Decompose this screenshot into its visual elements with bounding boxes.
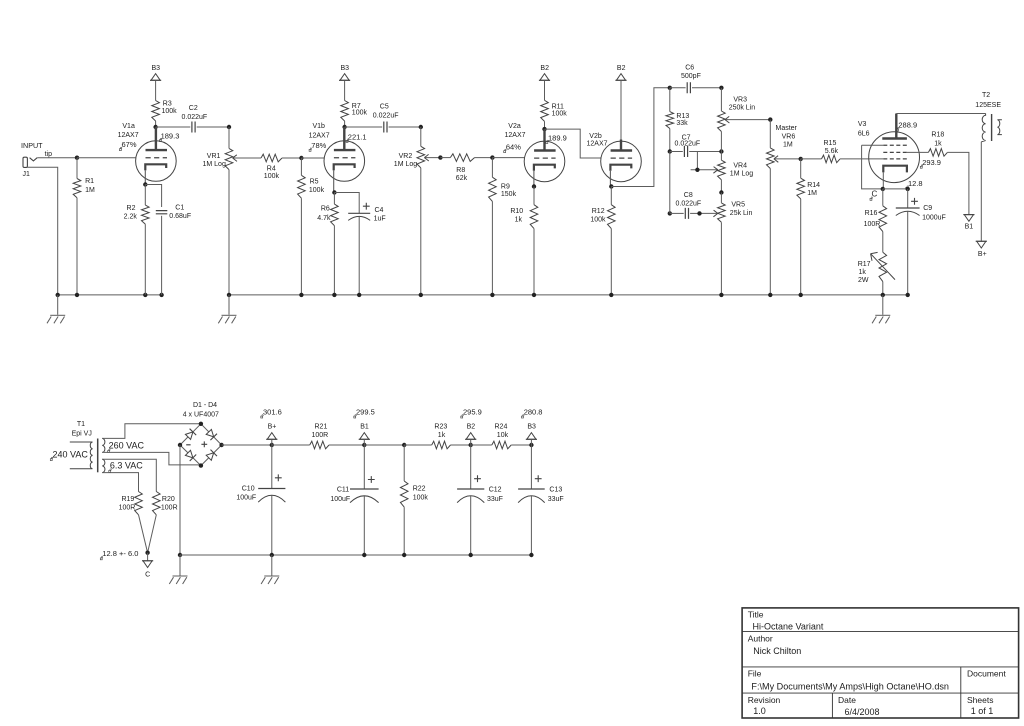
resistor R24	[492, 441, 511, 449]
diode D4	[206, 453, 214, 461]
svg-text:6/4/2008: 6/4/2008	[845, 707, 880, 717]
node V2a plate	[542, 127, 546, 131]
svg-text:R2: R2	[127, 205, 136, 212]
wire VR4 bottom	[720, 180, 722, 193]
node bridge bottom	[199, 463, 203, 467]
wire to C7	[670, 151, 683, 153]
node C2 out	[227, 125, 231, 129]
wire bridge minus to rail	[179, 445, 181, 555]
node bridge left	[178, 443, 182, 447]
svg-text:tip: tip	[45, 151, 53, 158]
svg-text:260 VAC: 260 VAC	[109, 441, 145, 451]
svg-text:R19: R19	[121, 496, 134, 503]
svg-text:293.9: 293.9	[922, 158, 941, 167]
wire cathode V2a to R10	[533, 187, 535, 205]
wire C5 to VR2 node	[389, 126, 421, 128]
node V2b cathode	[609, 184, 613, 188]
svg-text:288.9: 288.9	[898, 120, 917, 129]
wire B3 to R3	[155, 80, 157, 100]
wire VR4 top	[720, 152, 722, 161]
capacitor C9 (polarized)	[896, 207, 920, 209]
B3 supply arrow (V1a)	[151, 74, 160, 81]
wire R7 to plate node	[344, 121, 346, 127]
wire plate to C2	[156, 126, 191, 128]
node B1 psu	[362, 443, 366, 447]
wire wiper to R15	[801, 158, 822, 160]
wire R1 bottom	[76, 198, 78, 295]
wire wiper to R8	[440, 157, 450, 159]
wire B1 arrow stem	[363, 439, 365, 445]
wire HT bottom lead	[102, 452, 201, 465]
junction rail R12	[609, 293, 613, 297]
node V1a cathode	[143, 182, 147, 186]
svg-text:Title: Title	[748, 609, 764, 619]
node tone stack top left	[668, 86, 672, 90]
svg-text:Epi VJ: Epi VJ	[72, 430, 92, 437]
svg-text:1.0: 1.0	[753, 706, 766, 716]
wire R12 to rail	[610, 229, 612, 295]
wire B2 node to R24	[471, 444, 492, 446]
resistor R15	[822, 155, 841, 163]
junction rail VR6	[768, 293, 772, 297]
capacitor C10 (polarized)	[258, 488, 285, 490]
node C9 top	[906, 187, 910, 191]
svg-text:C13: C13	[549, 487, 562, 494]
wire R1 top	[76, 158, 78, 179]
svg-text:R21: R21	[315, 424, 328, 431]
triode V1b	[324, 141, 365, 182]
junction rail R5	[299, 293, 303, 297]
svg-text:T1: T1	[77, 421, 85, 428]
wire R9 bottom	[491, 201, 493, 295]
wire C10 top	[271, 445, 273, 489]
capacitor C2	[192, 122, 195, 133]
wire B2 to R11	[544, 80, 546, 100]
node C7 left	[668, 149, 672, 153]
wire C7 node down to C8	[669, 152, 671, 214]
svg-text:12AX7: 12AX7	[587, 141, 608, 148]
svg-text:C8: C8	[684, 192, 693, 199]
resistor R9	[489, 177, 497, 201]
svg-text:1 of 1: 1 of 1	[971, 706, 994, 716]
svg-text:62k: 62k	[456, 175, 468, 182]
svg-text:C11: C11	[337, 487, 349, 494]
svg-text:C1: C1	[175, 205, 184, 212]
node R22 top	[402, 443, 406, 447]
wire C8 to VR5 wiper	[690, 212, 699, 214]
svg-text:189.3: 189.3	[161, 131, 180, 140]
capacitor C5	[384, 122, 387, 133]
svg-text:100k: 100k	[162, 108, 178, 115]
wire VR2 bottom	[420, 168, 422, 295]
capacitor C8	[685, 208, 688, 219]
wire R21 to B1 node	[329, 444, 364, 446]
svg-text:100R: 100R	[312, 432, 329, 439]
svg-text:R4: R4	[267, 166, 276, 173]
wire VR1 bottom	[228, 170, 230, 295]
wire R24 to B3 node	[511, 444, 531, 446]
svg-text:1M Log: 1M Log	[394, 161, 417, 168]
wire grid V1b	[301, 157, 324, 159]
resistor R2	[142, 205, 150, 224]
svg-text:100R: 100R	[119, 505, 136, 512]
bridge edge top-right	[201, 424, 222, 445]
svg-text:V2a: V2a	[508, 123, 521, 130]
junction rail R2	[143, 293, 147, 297]
svg-text:1M Log: 1M Log	[730, 171, 753, 178]
wire R10 to rail	[533, 229, 535, 295]
wire R13 top	[669, 88, 671, 112]
wire C6 to VR3	[692, 87, 721, 89]
svg-text:C5: C5	[380, 103, 389, 110]
node VR2 wiper	[438, 155, 442, 159]
wire C9 to rail	[907, 211, 909, 295]
wire B2 arrow stem	[470, 439, 472, 445]
wire R22 top	[403, 445, 405, 481]
svg-text:1M Log: 1M Log	[203, 161, 226, 168]
svg-text:Date: Date	[838, 695, 856, 705]
svg-text:0.68uF: 0.68uF	[169, 213, 191, 220]
diode D3	[185, 450, 193, 458]
wire C12 top	[470, 445, 472, 489]
wire C2 to VR1 node	[197, 126, 229, 128]
wire screen to R18	[907, 151, 929, 153]
svg-text:100R: 100R	[864, 221, 881, 228]
bridge edge bottom-right	[201, 445, 222, 466]
svg-text:1M: 1M	[807, 190, 817, 197]
svg-text:12.8 +- 6.0: 12.8 +- 6.0	[102, 549, 138, 558]
svg-text:R14: R14	[807, 182, 820, 189]
svg-text:4 x UF4007: 4 x UF4007	[183, 411, 219, 418]
potentiometer VR1	[225, 148, 233, 169]
svg-text:67%: 67%	[122, 140, 137, 149]
svg-text:10k: 10k	[497, 432, 509, 439]
resistor R21	[310, 441, 329, 449]
capacitor C13 (polarized)	[518, 488, 545, 490]
wire cathode to C9	[883, 188, 908, 190]
transformer T2	[981, 114, 985, 142]
svg-text:VR2: VR2	[399, 153, 413, 160]
svg-text:301.6: 301.6	[263, 408, 282, 417]
svg-text:4.7k: 4.7k	[317, 215, 331, 222]
svg-text:B+: B+	[268, 423, 277, 430]
svg-text:D1 - D4: D1 - D4	[193, 402, 217, 409]
B+ supply arrow (output)	[977, 241, 986, 248]
psu ground rail	[180, 554, 531, 556]
wire 6.3 bottom lead	[102, 473, 138, 492]
node C7 right	[719, 149, 723, 153]
wire VR3 bottom	[720, 132, 722, 152]
wire cathode V1b to C4	[334, 193, 359, 214]
svg-text:R8: R8	[456, 167, 465, 174]
wire to C8	[670, 212, 684, 214]
svg-text:C2: C2	[189, 105, 198, 112]
wire to C6	[670, 87, 686, 89]
svg-text:Nick Chilton: Nick Chilton	[753, 646, 801, 656]
svg-text:R20: R20	[162, 496, 175, 503]
wire cathode V1b to R6	[333, 193, 335, 205]
svg-text:100k: 100k	[264, 173, 280, 180]
svg-text:1k: 1k	[438, 432, 446, 439]
node B2 psu	[469, 443, 473, 447]
potentiometer VR4	[718, 160, 726, 180]
resistor R3	[152, 101, 160, 122]
svg-text:R23: R23	[434, 424, 447, 431]
wire C point to arrow	[147, 553, 149, 561]
svg-text:100k: 100k	[552, 111, 568, 118]
svg-text:280.8: 280.8	[524, 408, 543, 417]
wire R20 to C point	[148, 515, 157, 553]
svg-text:100k: 100k	[590, 217, 606, 224]
svg-text:R1: R1	[85, 178, 94, 185]
junction psu rail C13	[529, 553, 533, 557]
svg-text:1uF: 1uF	[374, 216, 386, 223]
capacitor C1	[156, 211, 168, 214]
B2 supply arrow (V2a)	[540, 74, 549, 81]
net terminal C (heater)	[143, 561, 152, 568]
wire C4 to rail	[358, 216, 360, 295]
svg-text:299.5: 299.5	[356, 408, 375, 417]
title block	[742, 608, 1019, 718]
svg-text:1k: 1k	[934, 141, 942, 148]
svg-text:R10: R10	[510, 208, 523, 215]
capacitor C12 (polarized)	[457, 488, 484, 490]
svg-text:File: File	[748, 669, 762, 679]
wire R17 to rail	[882, 282, 884, 295]
svg-text:R24: R24	[495, 424, 508, 431]
svg-text:189.9: 189.9	[548, 133, 567, 142]
svg-text:R11: R11	[552, 104, 564, 111]
svg-text:V2b: V2b	[589, 133, 602, 140]
svg-text:150k: 150k	[501, 191, 517, 198]
resistor R19	[135, 492, 143, 515]
svg-text:33uF: 33uF	[487, 496, 503, 503]
diode D2	[206, 429, 214, 437]
ground rail main	[229, 294, 908, 296]
wire B3 arrow stem	[530, 439, 532, 445]
node B3 psu	[529, 443, 533, 447]
wire R5 bottom	[300, 198, 302, 295]
node V1a plate	[153, 125, 157, 129]
node V2a grid	[490, 155, 494, 159]
wire R2 to rail	[144, 224, 146, 295]
node C8 left	[668, 211, 672, 215]
svg-text:1000uF: 1000uF	[922, 215, 946, 222]
junction rail R14	[799, 293, 803, 297]
wire R6 to rail	[333, 226, 335, 295]
junction rail R6	[332, 293, 336, 297]
wire beam leg down	[862, 145, 883, 189]
junction rail C1	[159, 293, 163, 297]
svg-text:100k: 100k	[352, 109, 368, 116]
resistor R13	[666, 112, 674, 129]
ground main rail left	[228, 295, 230, 315]
svg-text:2W: 2W	[858, 277, 869, 284]
wire R11 to plate node	[544, 121, 546, 129]
junction rail R9	[490, 293, 494, 297]
svg-text:Document: Document	[967, 669, 1006, 679]
bridge edge top-left	[180, 424, 201, 445]
svg-text:B2: B2	[540, 65, 549, 72]
transformer T1	[70, 442, 93, 469]
svg-text:B2: B2	[467, 423, 476, 430]
wire beam plates to cathode	[862, 144, 884, 146]
ground rail stage 1	[58, 294, 162, 296]
wire C13 top	[530, 445, 532, 489]
svg-text:R3: R3	[163, 100, 172, 107]
svg-text:R22: R22	[413, 485, 426, 492]
wire C12 to rail	[470, 496, 472, 555]
svg-text:R16: R16	[865, 210, 878, 217]
svg-text:100uF: 100uF	[330, 496, 350, 503]
svg-text:V1b: V1b	[313, 123, 326, 130]
svg-text:VR6: VR6	[782, 134, 796, 141]
resistor R4	[261, 154, 282, 162]
wire V3 cathode lead	[882, 172, 884, 189]
node heater center C	[145, 551, 149, 555]
wire plate V1b to C5	[345, 126, 383, 128]
svg-text:78%: 78%	[311, 141, 326, 150]
resistor R12	[608, 205, 616, 229]
svg-text:C12: C12	[489, 487, 502, 494]
wire bridge plus to B+ node	[222, 444, 272, 446]
svg-text:33k: 33k	[676, 120, 688, 127]
wire C11 top	[363, 445, 365, 489]
capacitor C4 (polarized)	[348, 212, 370, 214]
node B+ psu	[270, 443, 274, 447]
resistor R22	[400, 481, 408, 507]
svg-text:0.022uF: 0.022uF	[182, 114, 208, 121]
node VR4-VR5	[719, 190, 723, 194]
svg-text:VR1: VR1	[207, 153, 221, 160]
svg-text:Revision: Revision	[748, 695, 781, 705]
svg-text:J1: J1	[23, 171, 31, 178]
B1 supply arrow	[964, 215, 973, 222]
B+ supply arrow (psu)	[267, 433, 276, 440]
wire grid V1a	[77, 157, 136, 159]
wire B+ to R21	[272, 444, 310, 446]
wire R3 to plate node	[155, 121, 157, 127]
svg-text:C: C	[145, 572, 150, 579]
B3 supply arrow (V1b)	[340, 74, 349, 81]
wire VR2 top	[420, 127, 422, 146]
junction rail VR1	[227, 293, 231, 297]
wire B1 node to R22	[364, 444, 404, 446]
wire R19 to C point	[139, 515, 148, 553]
junction psu rail minus	[178, 553, 182, 557]
wire R16 to R17	[882, 232, 884, 253]
svg-text:Master: Master	[776, 125, 798, 132]
ground psu left	[179, 555, 181, 576]
wire C7 to VR3 bottom node	[689, 151, 721, 153]
wire VR6 top	[769, 120, 771, 148]
resistor R10	[530, 205, 538, 229]
triode V2b	[601, 141, 642, 182]
wire R5 top	[300, 158, 302, 175]
wire R22 bottom	[403, 507, 405, 555]
svg-text:6L6: 6L6	[858, 131, 870, 138]
resistor R16	[879, 206, 887, 232]
resistor R5	[298, 175, 306, 198]
wire C9 down	[907, 189, 909, 208]
ground stage 1	[57, 295, 59, 315]
wire VR6 bottom	[769, 169, 771, 295]
pentode V3 (6L6)	[869, 132, 920, 183]
svg-text:VR4: VR4	[733, 163, 747, 170]
potentiometer VR2	[417, 146, 425, 168]
wire C10 to rail	[271, 495, 273, 555]
svg-text:100k: 100k	[309, 187, 325, 194]
svg-text:64%: 64%	[506, 143, 521, 152]
node V1b cathode	[332, 190, 336, 194]
svg-text:221.1: 221.1	[348, 132, 367, 141]
wire R9 top	[491, 158, 493, 178]
svg-text:C4: C4	[375, 207, 384, 214]
input jack J1	[23, 157, 27, 167]
svg-text:5.6k: 5.6k	[825, 148, 839, 155]
wire R8 to grid node	[475, 157, 493, 159]
wire VR3 top	[720, 88, 722, 111]
ground V3	[882, 295, 884, 315]
svg-text:C10: C10	[242, 485, 255, 492]
rheostat R17	[879, 252, 887, 281]
capacitor C6	[687, 82, 690, 93]
junction rail VR5	[719, 293, 723, 297]
junction psu rail R22	[402, 553, 406, 557]
wire T2 primary to B+	[980, 142, 982, 242]
wire HT top lead	[102, 424, 201, 439]
resistor R7	[341, 101, 349, 122]
junction rail R1	[75, 293, 79, 297]
node V1b plate	[342, 125, 346, 129]
svg-text:100k: 100k	[413, 495, 429, 502]
svg-text:V1a: V1a	[122, 123, 135, 130]
node V1b grid	[299, 156, 303, 160]
svg-text:R15: R15	[824, 140, 837, 147]
B2 supply arrow (V2b)	[616, 74, 625, 81]
junction rail J1	[56, 293, 60, 297]
potentiometer VR6 (Master)	[767, 148, 775, 169]
B1 supply arrow (psu)	[360, 433, 369, 440]
node C6 out	[719, 86, 723, 90]
svg-text:B3: B3	[152, 65, 161, 72]
ground psu C10	[271, 555, 273, 576]
svg-text:25k Lin: 25k Lin	[730, 210, 753, 217]
wire J1 tip to grid node	[37, 157, 77, 159]
wire R14 top	[800, 159, 802, 178]
svg-text:B+: B+	[978, 251, 987, 258]
junction psu rail C12	[469, 553, 473, 557]
wire R13 to C7 node	[669, 129, 671, 152]
svg-text:100R: 100R	[161, 505, 178, 512]
junction rail C9	[906, 293, 910, 297]
svg-text:B3: B3	[341, 65, 350, 72]
node C5 out	[419, 125, 423, 129]
wire B2 to V2b plate	[620, 80, 622, 139]
svg-text:R17: R17	[858, 261, 871, 268]
svg-text:R5: R5	[310, 179, 319, 186]
junction psu rail C10	[270, 553, 274, 557]
svg-text:0.022uF: 0.022uF	[676, 201, 702, 208]
wire VR5 bottom	[720, 222, 722, 295]
svg-text:R12: R12	[592, 208, 605, 215]
bridge edge bottom-left	[180, 445, 201, 466]
node V2a cathode	[532, 184, 536, 188]
svg-text:VR3: VR3	[733, 97, 747, 104]
node bridge top	[199, 422, 203, 426]
svg-text:B1: B1	[965, 223, 974, 230]
svg-text:R18: R18	[931, 132, 944, 139]
